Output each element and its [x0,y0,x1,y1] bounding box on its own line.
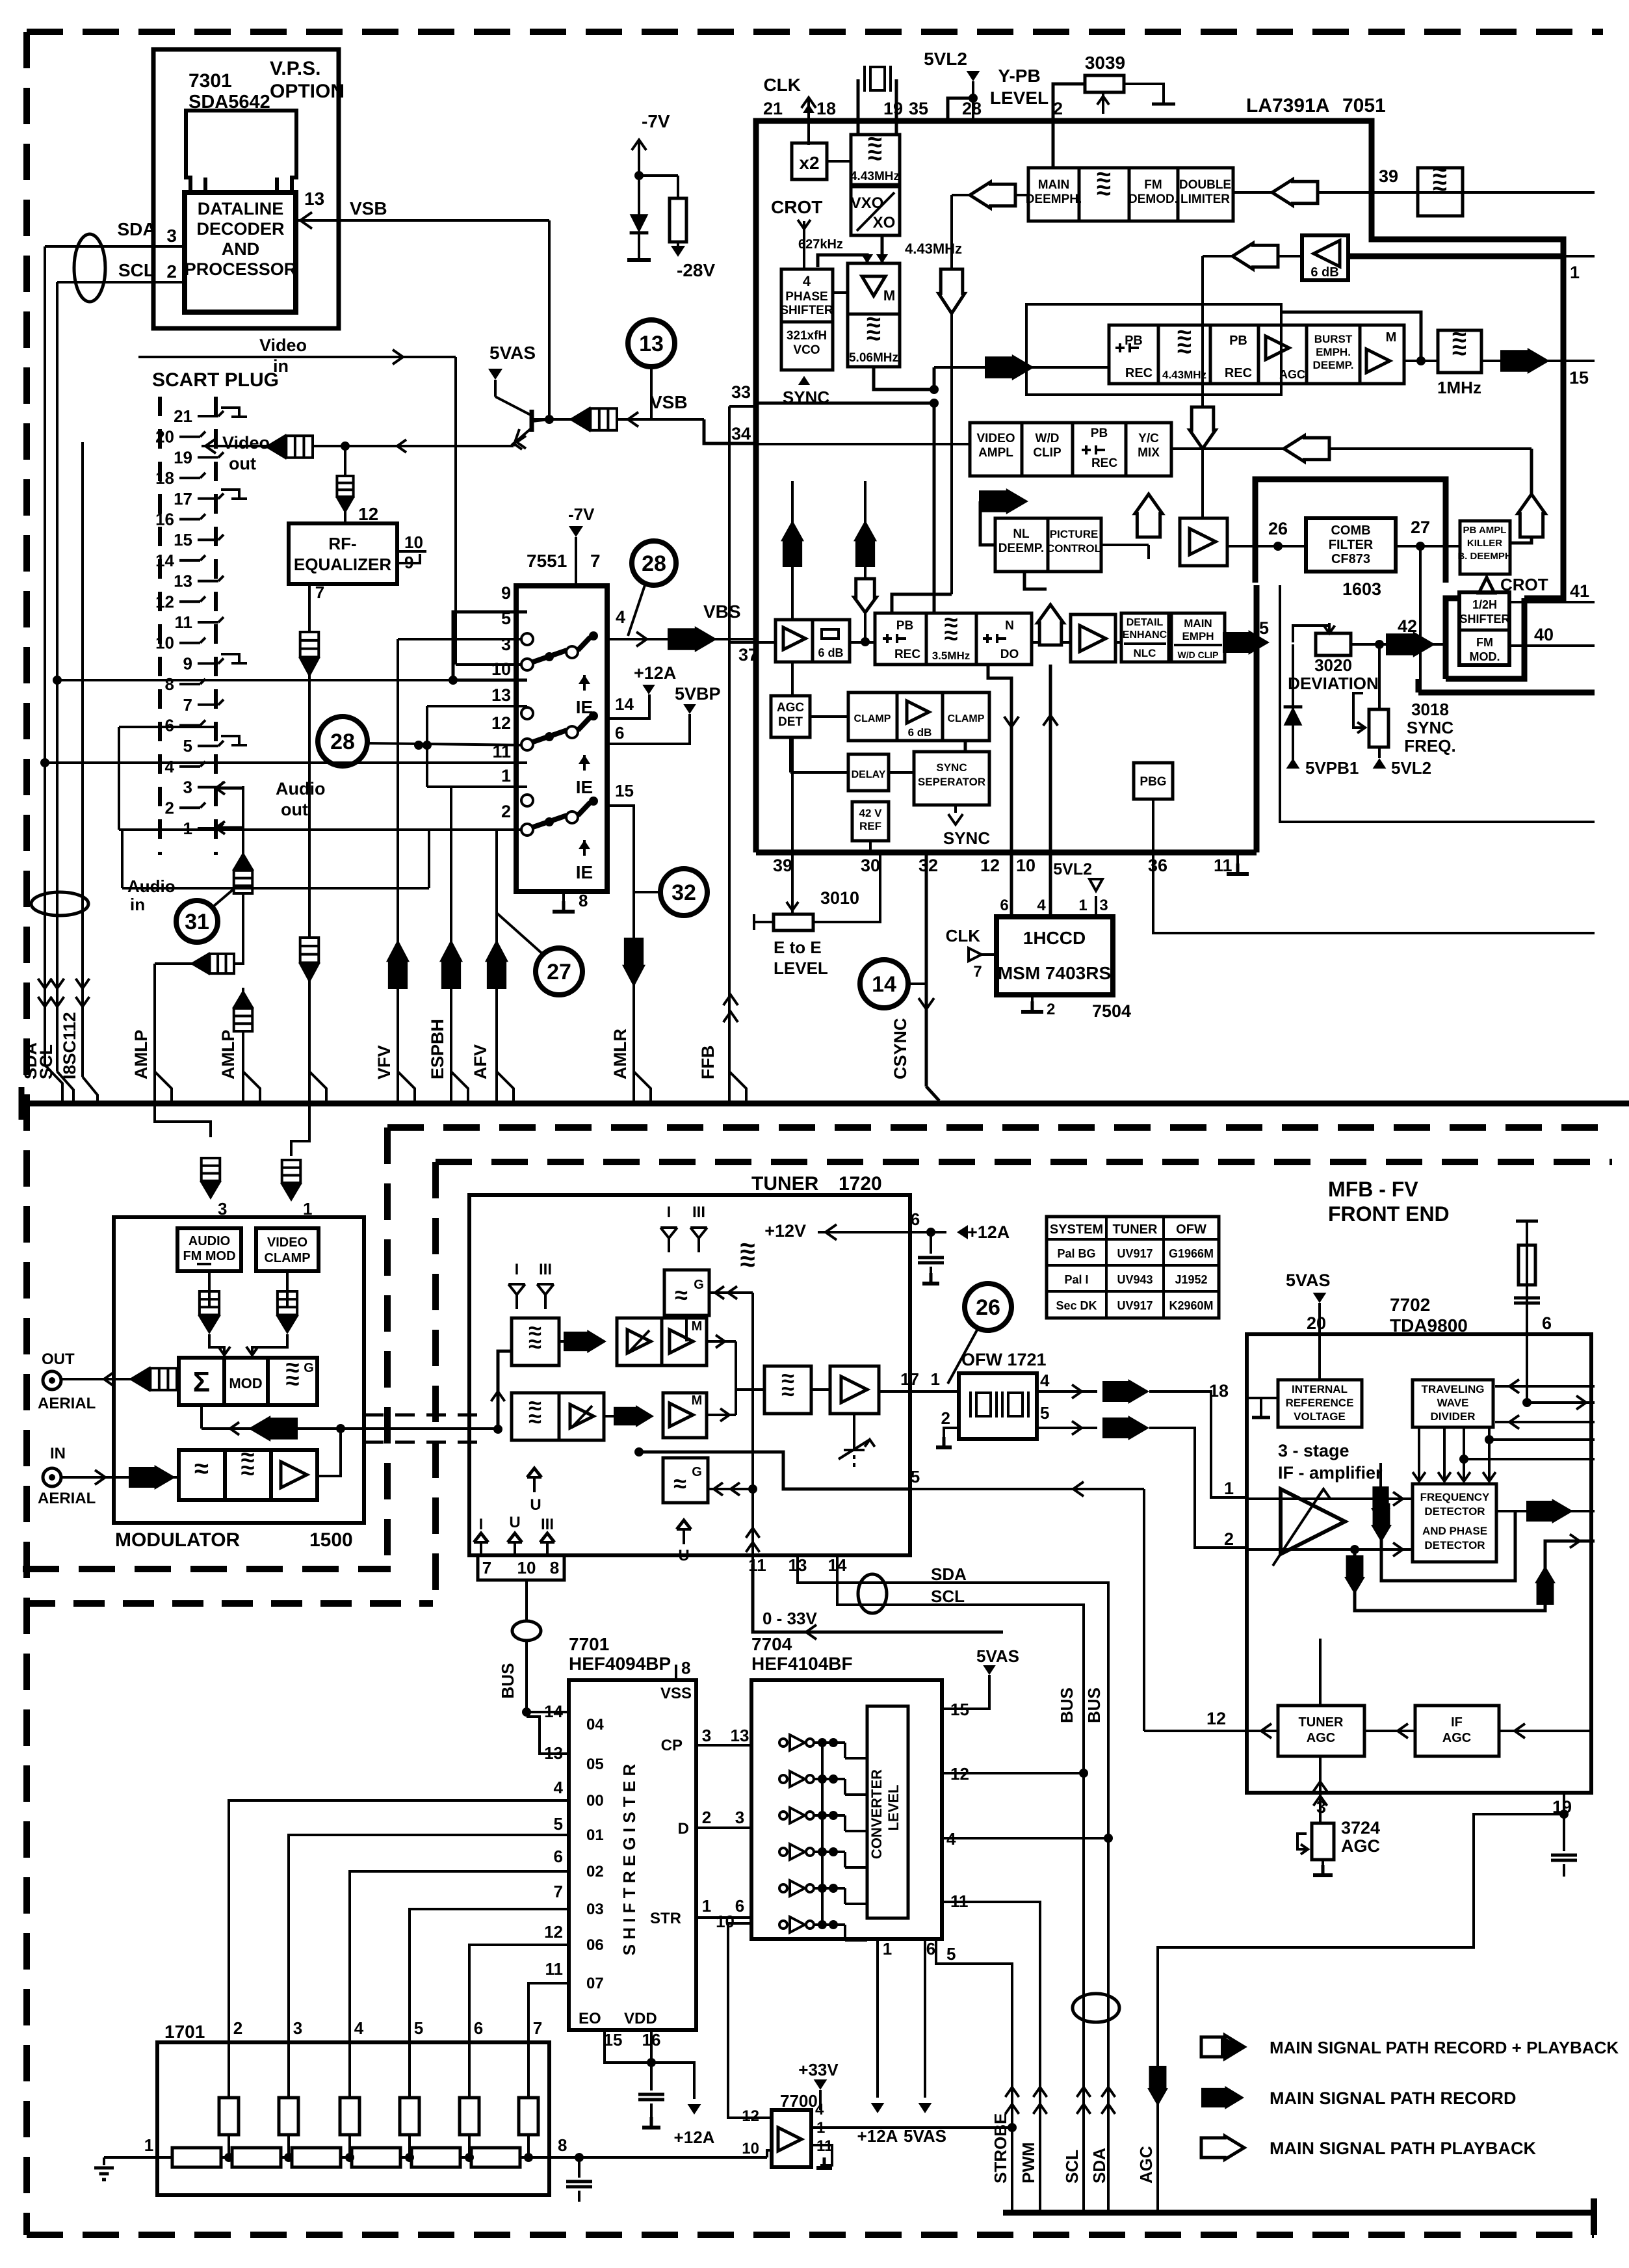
svg-text:U: U [509,1514,520,1531]
svg-text:2: 2 [166,261,177,282]
svg-text:AGC: AGC [1341,1836,1380,1856]
svg-text:AMPL: AMPL [978,446,1013,460]
svg-text:2: 2 [1224,1529,1234,1549]
svg-text:SYNC: SYNC [943,828,990,848]
svg-text:AGC: AGC [1442,1731,1471,1745]
svg-text:REC: REC [1125,366,1153,380]
svg-text:FM: FM [1144,178,1162,192]
svg-text:VSS: VSS [660,1685,692,1702]
svg-text:3010: 3010 [820,888,859,908]
svg-text:5.06MHz: 5.06MHz [849,351,898,365]
svg-text:2: 2 [165,798,174,817]
svg-text:11: 11 [175,613,193,632]
svg-text:CLAMP: CLAMP [948,713,985,724]
svg-text:INTERNAL: INTERNAL [1292,1383,1348,1395]
svg-text:SHIFTER: SHIFTER [780,304,833,317]
svg-text:32: 32 [671,880,696,905]
svg-text:26: 26 [976,1295,1000,1320]
svg-text:FILTER: FILTER [1329,538,1374,552]
svg-text:42 V: 42 V [859,807,883,819]
svg-text:4: 4 [354,2018,364,2038]
svg-text:MFB - FV: MFB - FV [1328,1178,1418,1201]
svg-text:12: 12 [544,1922,563,1942]
svg-text:BUS: BUS [498,1663,517,1699]
svg-text:5: 5 [554,1814,563,1834]
svg-text:2: 2 [941,1408,950,1428]
svg-text:+12V: +12V [764,1221,806,1241]
svg-text:OFW: OFW [1176,1222,1206,1237]
svg-text:III: III [541,1516,554,1533]
svg-text:N: N [1005,619,1014,633]
svg-text:IE: IE [576,777,593,797]
svg-text:REC: REC [1091,456,1117,470]
svg-text:REFERENCE: REFERENCE [1286,1397,1354,1409]
svg-text:1: 1 [883,1939,892,1958]
svg-text:VBS: VBS [703,601,741,622]
svg-text:AGC: AGC [1279,368,1305,381]
svg-text:PICTURE: PICTURE [1050,528,1099,540]
svg-text:11: 11 [748,1555,766,1575]
svg-text:PB: PB [1091,427,1108,440]
svg-text:15: 15 [174,530,192,549]
svg-text:EMPH: EMPH [1182,630,1214,642]
svg-text:2: 2 [702,1808,711,1827]
svg-text:≈: ≈ [528,1405,541,1432]
svg-text:+12A: +12A [857,2126,898,2146]
svg-text:7700: 7700 [780,2091,818,2111]
svg-text:G: G [692,1465,702,1479]
svg-text:6 dB: 6 dB [1310,265,1338,280]
svg-text:10: 10 [404,533,423,552]
svg-text:AUDIO: AUDIO [189,1234,230,1248]
svg-text:17: 17 [900,1369,919,1389]
svg-text:3: 3 [702,1726,711,1745]
svg-text:VIDEO: VIDEO [976,432,1015,445]
svg-text:REF: REF [859,820,881,832]
svg-text:3: 3 [166,226,177,246]
svg-text:1603: 1603 [1342,579,1381,599]
svg-text:AERIAL: AERIAL [38,1395,96,1412]
svg-text:III: III [539,1261,552,1278]
svg-text:8: 8 [550,1558,559,1577]
svg-text:27: 27 [1411,518,1430,537]
svg-text:CLK: CLK [946,926,981,945]
svg-text:AMLR: AMLR [610,1029,630,1079]
svg-text:S H I F T R E G I S T E R: S H I F T R E G I S T E R [619,1763,639,1955]
svg-text:SCL: SCL [1062,2150,1082,2183]
svg-text:9: 9 [501,583,511,603]
svg-text:LEVEL: LEVEL [885,1785,902,1831]
svg-text:5VL2: 5VL2 [924,49,967,69]
svg-text:LA7391A: LA7391A [1246,95,1329,116]
svg-text:PB: PB [896,619,913,633]
svg-text:≈: ≈ [1177,334,1192,363]
svg-text:Y/C: Y/C [1138,432,1159,445]
svg-text:STROBE: STROBE [991,2113,1010,2183]
svg-text:6 dB: 6 dB [908,726,932,739]
svg-text:3: 3 [183,778,192,797]
svg-text:HEF4104BF: HEF4104BF [751,1654,853,1674]
svg-text:4.43MHz: 4.43MHz [1162,369,1206,381]
svg-text:CP: CP [661,1737,683,1754]
svg-text:5: 5 [1040,1403,1049,1423]
svg-text:+12A: +12A [674,2128,715,2147]
svg-text:AGC: AGC [1136,2146,1156,2183]
svg-text:PHASE: PHASE [785,290,828,304]
svg-text:10: 10 [517,1558,536,1577]
svg-text:5VAS: 5VAS [904,2126,946,2146]
svg-text:321xfH: 321xfH [787,329,827,343]
svg-text:Pal I: Pal I [1064,1273,1088,1286]
svg-text:MSM 7403RS: MSM 7403RS [998,963,1111,983]
svg-text:7: 7 [183,695,192,715]
svg-text:VDD: VDD [624,2010,657,2027]
svg-text:UV917: UV917 [1117,1247,1153,1260]
svg-text:6 dB: 6 dB [818,646,843,659]
svg-text:I: I [515,1261,519,1278]
svg-text:04: 04 [586,1716,604,1734]
svg-text:STR: STR [650,1910,681,1927]
svg-text:VFV: VFV [374,1045,394,1079]
svg-text:7: 7 [533,2018,542,2038]
svg-text:DO: DO [1000,648,1019,661]
svg-text:5VAS: 5VAS [1286,1271,1331,1290]
svg-text:IN: IN [50,1445,66,1462]
svg-text:VSB: VSB [650,392,688,412]
svg-text:AGC: AGC [777,701,805,715]
svg-text:≈: ≈ [286,1367,300,1395]
svg-text:19: 19 [883,99,903,118]
svg-text:≈: ≈ [241,1457,255,1484]
svg-text:M: M [692,1393,703,1408]
svg-text:MAIN: MAIN [1038,178,1070,192]
svg-text:17: 17 [174,489,192,508]
svg-text:Video: Video [222,433,270,453]
svg-text:≈: ≈ [868,141,882,170]
svg-text:ENHANC: ENHANC [1123,629,1167,640]
svg-text:EQUALIZER: EQUALIZER [294,555,391,574]
svg-text:13: 13 [491,685,511,705]
svg-text:7: 7 [554,1882,563,1901]
svg-text:30: 30 [861,856,880,875]
svg-text:M: M [1386,330,1397,345]
svg-text:1/2H: 1/2H [1472,598,1497,611]
svg-text:G: G [694,1278,704,1292]
svg-text:DELAY: DELAY [852,769,886,780]
svg-text:≈: ≈ [675,1282,688,1308]
svg-text:ESPBH: ESPBH [428,1019,447,1079]
svg-text:13: 13 [731,1726,749,1745]
svg-text:≈: ≈ [781,1378,794,1404]
svg-text:8: 8 [558,2135,567,2155]
svg-text:6: 6 [911,1209,920,1229]
svg-text:21: 21 [763,99,783,118]
svg-text:5VL2: 5VL2 [1391,758,1431,778]
svg-text:4: 4 [803,273,811,289]
svg-text:MIX: MIX [1138,446,1160,460]
svg-text:DETECTOR: DETECTOR [1424,1505,1485,1518]
svg-text:3: 3 [501,635,511,654]
svg-text:PBG: PBG [1140,775,1166,789]
svg-text:6: 6 [1542,1313,1552,1333]
svg-text:FRONT END: FRONT END [1328,1202,1450,1226]
svg-text:+33V: +33V [798,2060,839,2079]
svg-text:5VAS: 5VAS [976,1646,1019,1666]
svg-text:28: 28 [642,551,666,576]
svg-text:PROCESSOR: PROCESSOR [185,259,297,279]
svg-text:V.P.S.: V.P.S. [270,58,320,79]
svg-text:NL: NL [1013,527,1030,541]
svg-text:D: D [678,1820,689,1838]
svg-text:18: 18 [816,99,836,118]
svg-text:SDA: SDA [931,1564,967,1584]
svg-text:SDA: SDA [1089,2148,1109,2183]
svg-text:MODULATOR: MODULATOR [115,1529,241,1551]
svg-text:PWM: PWM [1019,2142,1038,2183]
svg-text:≈: ≈ [1452,336,1466,365]
svg-text:3020: 3020 [1314,655,1352,675]
svg-text:18: 18 [155,468,174,488]
svg-text:BUS: BUS [1057,1687,1076,1723]
svg-text:40: 40 [1534,625,1554,644]
svg-text:DEEMP.: DEEMP. [1313,359,1354,371]
svg-text:CONVERTER: CONVERTER [868,1769,885,1859]
svg-text:≈: ≈ [1433,172,1447,200]
svg-text:2: 2 [501,802,511,821]
svg-text:1MHz: 1MHz [1437,378,1481,397]
svg-text:AMLP: AMLP [131,1030,151,1080]
svg-text:MAIN SIGNAL PATH PLAYBACK: MAIN SIGNAL PATH PLAYBACK [1270,2139,1537,2158]
svg-text:VSB: VSB [350,198,387,218]
svg-text:IF: IF [1451,1715,1463,1730]
svg-text:AERIAL: AERIAL [38,1490,96,1507]
svg-text:LEVEL: LEVEL [990,88,1049,108]
svg-text:3: 3 [1099,897,1108,914]
svg-text:37: 37 [738,645,758,665]
svg-text:OFW 1721: OFW 1721 [961,1350,1047,1369]
svg-text:W/D CLIP: W/D CLIP [1178,650,1219,660]
svg-text:14: 14 [872,972,896,997]
svg-text:SEPERATOR: SEPERATOR [918,776,985,788]
svg-text:MAIN: MAIN [1184,617,1212,629]
svg-text:12: 12 [155,592,174,611]
svg-text:CLIP: CLIP [1033,446,1062,460]
svg-text:4: 4 [1037,897,1046,914]
svg-text:G: G [304,1361,314,1375]
svg-text:Video: Video [259,336,307,355]
svg-text:AFV: AFV [471,1044,490,1079]
svg-text:21: 21 [174,406,192,426]
svg-text:41: 41 [1570,581,1589,601]
svg-text:DECODER: DECODER [196,219,284,239]
svg-text:SYNC: SYNC [936,761,967,774]
svg-text:CROT: CROT [771,197,822,217]
svg-text:4: 4 [554,1778,564,1797]
svg-text:SDA: SDA [117,219,155,239]
svg-text:I8SC112: I8SC112 [60,1012,79,1079]
svg-text:DETECTOR: DETECTOR [1424,1539,1485,1551]
svg-text:≈: ≈ [528,1330,541,1357]
svg-text:13: 13 [174,572,192,591]
svg-text:DEMOD.: DEMOD. [1128,192,1178,206]
svg-text:IE: IE [576,862,593,882]
svg-text:6: 6 [474,2018,483,2038]
svg-text:7704: 7704 [751,1634,792,1654]
svg-text:PB: PB [1125,334,1143,348]
svg-text:19: 19 [174,447,192,467]
svg-text:RF-: RF- [328,534,356,553]
svg-text:LEVEL: LEVEL [774,958,828,978]
svg-text:0 - 33V: 0 - 33V [762,1609,817,1628]
svg-text:13: 13 [639,332,664,356]
svg-text:5: 5 [414,2018,423,2038]
svg-text:Audio: Audio [127,877,176,896]
svg-text:02: 02 [586,1863,604,1880]
svg-text:FREQUENCY: FREQUENCY [1420,1491,1490,1503]
svg-text:B. DEEMPH: B. DEEMPH [1457,551,1511,562]
svg-text:Pal BG: Pal BG [1057,1247,1095,1260]
svg-text:35: 35 [909,99,928,118]
svg-text:12: 12 [742,2107,759,2125]
svg-text:1: 1 [1078,897,1087,914]
svg-text:PB: PB [1229,334,1247,348]
svg-text:KILLER: KILLER [1467,538,1502,549]
svg-text:01: 01 [586,1826,604,1844]
svg-text:CLK: CLK [763,75,801,95]
svg-text:-7V: -7V [642,111,670,131]
svg-text:5VBP: 5VBP [675,684,721,704]
svg-text:6: 6 [1000,897,1008,914]
svg-text:5VL2: 5VL2 [1053,860,1092,878]
svg-text:≈: ≈ [194,1455,209,1483]
svg-text:DOUBLE: DOUBLE [1179,178,1231,192]
svg-text:REC: REC [1225,366,1252,380]
svg-text:10: 10 [155,633,174,653]
svg-text:NLC: NLC [1134,647,1156,659]
svg-text:FFB: FFB [698,1046,718,1079]
svg-text:TUNER: TUNER [751,1173,819,1194]
svg-text:≈: ≈ [1097,176,1111,205]
svg-text:VIDEO: VIDEO [267,1235,307,1250]
svg-text:34: 34 [731,424,751,443]
svg-text:1: 1 [303,1199,312,1219]
svg-text:12: 12 [1206,1709,1226,1728]
svg-text:2: 2 [233,2018,242,2038]
svg-text:UV917: UV917 [1117,1299,1153,1312]
svg-text:1: 1 [931,1369,940,1389]
svg-text:15: 15 [615,781,634,800]
svg-text:W/D: W/D [1036,432,1060,445]
svg-text:627kHz: 627kHz [798,237,843,252]
svg-text:3039: 3039 [1085,53,1125,73]
svg-text:36: 36 [1148,856,1167,875]
svg-text:x2: x2 [799,153,819,173]
svg-text:CLAMP: CLAMP [854,713,891,724]
svg-text:39: 39 [1379,166,1398,186]
svg-text:MOD: MOD [229,1375,262,1391]
svg-text:9: 9 [183,653,192,673]
svg-text:1720: 1720 [839,1173,882,1194]
svg-text:1HCCD: 1HCCD [1023,928,1086,948]
svg-text:27: 27 [547,960,571,984]
svg-text:XO: XO [873,214,896,231]
svg-text:COMB: COMB [1331,523,1370,538]
svg-text:LIMITER: LIMITER [1180,192,1230,206]
svg-text:Y-PB: Y-PB [998,66,1040,86]
svg-text:32: 32 [919,856,938,875]
svg-text:out: out [229,454,256,473]
svg-text:DATALINE: DATALINE [198,199,283,218]
svg-text:EO: EO [579,2010,601,2027]
svg-text:FM MOD: FM MOD [183,1249,235,1263]
svg-text:3: 3 [218,1199,227,1219]
svg-text:11: 11 [545,1959,564,1979]
svg-text:AMLP: AMLP [218,1030,238,1080]
svg-text:6: 6 [165,716,174,735]
svg-text:SYSTEM: SYSTEM [1050,1222,1103,1237]
svg-text:03: 03 [586,1901,604,1918]
svg-text:SYNC: SYNC [1407,718,1453,737]
svg-text:3 - stage: 3 - stage [1278,1441,1349,1460]
svg-text:DEEMP.: DEEMP. [998,542,1044,555]
svg-text:MAIN SIGNAL PATH RECORD: MAIN SIGNAL PATH RECORD [1270,2089,1517,2108]
svg-text:5VAS: 5VAS [489,343,536,363]
svg-text:G1966M: G1966M [1169,1247,1214,1260]
svg-text:Audio: Audio [276,779,325,798]
svg-text:TRAVELING: TRAVELING [1422,1383,1485,1395]
svg-text:PB AMPL: PB AMPL [1463,525,1507,536]
svg-text:00: 00 [586,1792,604,1810]
svg-text:out: out [281,800,308,819]
svg-text:7: 7 [482,1558,491,1577]
svg-text:U: U [530,1496,541,1514]
svg-text:15: 15 [1569,368,1589,388]
svg-text:FREQ.: FREQ. [1404,736,1455,756]
svg-text:TUNER: TUNER [1113,1222,1158,1237]
svg-text:13: 13 [304,189,324,209]
svg-text:-7V: -7V [568,505,595,524]
svg-text:5: 5 [946,1944,956,1964]
svg-text:16: 16 [155,510,174,529]
svg-text:BURST: BURST [1314,333,1353,345]
svg-text:HEF4094BP: HEF4094BP [569,1654,671,1674]
svg-text:REC: REC [894,648,920,661]
svg-text:7701: 7701 [569,1634,609,1654]
svg-text:42: 42 [1398,616,1417,636]
svg-text:J1952: J1952 [1175,1273,1207,1286]
svg-text:DEVIATION: DEVIATION [1288,674,1379,693]
svg-text:06: 06 [586,1936,604,1954]
svg-text:1701: 1701 [164,2022,205,2042]
svg-text:CONTROL: CONTROL [1047,542,1101,555]
svg-text:MOD.: MOD. [1470,650,1500,663]
svg-text:3: 3 [293,2018,302,2038]
svg-text:K2960M: K2960M [1169,1299,1213,1312]
svg-text:DET: DET [778,715,803,729]
svg-text:1500: 1500 [309,1529,353,1551]
svg-text:≈: ≈ [867,321,881,350]
svg-text:SCL: SCL [36,1044,56,1079]
svg-text:7504: 7504 [1092,1001,1131,1021]
svg-text:VOLTAGE: VOLTAGE [1294,1410,1346,1423]
svg-text:MAIN SIGNAL PATH RECORD + PLAY: MAIN SIGNAL PATH RECORD + PLAYBACK [1270,2038,1619,2057]
svg-text:M: M [883,287,895,304]
svg-text:≈: ≈ [740,1246,755,1276]
svg-text:7551: 7551 [527,551,567,571]
svg-text:07: 07 [586,1975,604,1992]
svg-text:4: 4 [165,757,175,776]
svg-text:4: 4 [1040,1371,1050,1390]
